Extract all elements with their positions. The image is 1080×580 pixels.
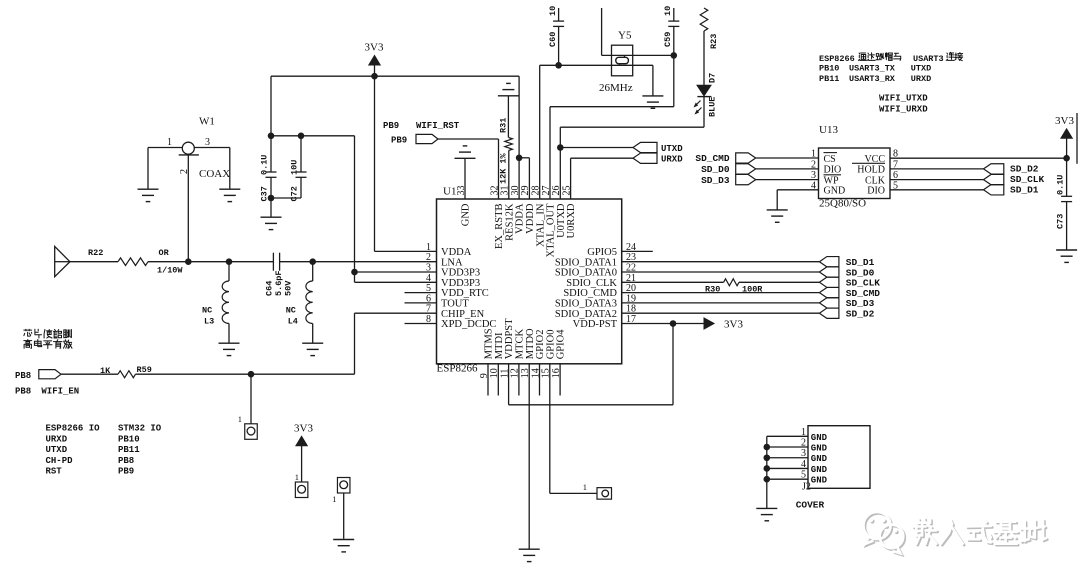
svg-text:ESP8266: ESP8266 — [437, 363, 478, 375]
svg-text:1: 1 — [332, 494, 336, 504]
svg-text:3: 3 — [801, 448, 806, 459]
svg-text:OR: OR — [159, 248, 170, 258]
svg-text:PB10: PB10 — [118, 434, 140, 444]
svg-text:GPIO4: GPIO4 — [556, 329, 567, 360]
svg-text:USART3: USART3 — [913, 54, 944, 64]
svg-text:1: 1 — [167, 137, 172, 148]
svg-text:UTXD: UTXD — [911, 64, 931, 74]
svg-text:VDD-PST: VDD-PST — [573, 319, 618, 330]
svg-text:R22: R22 — [88, 248, 103, 258]
svg-text:10U: 10U — [290, 160, 300, 175]
svg-text:WIFI_URXD: WIFI_URXD — [879, 105, 928, 115]
svg-text:5: 5 — [801, 470, 806, 481]
svg-text:DIO: DIO — [824, 165, 842, 176]
svg-text:Y5: Y5 — [618, 30, 632, 42]
svg-text:HOLD: HOLD — [857, 165, 885, 176]
svg-text:PB8: PB8 — [15, 387, 31, 397]
svg-text:2: 2 — [801, 438, 806, 449]
svg-text:COAX: COAX — [199, 168, 230, 180]
svg-text:3V3: 3V3 — [294, 423, 313, 435]
svg-text:3V3: 3V3 — [365, 42, 384, 54]
svg-text:R23: R23 — [709, 34, 719, 49]
svg-text:12K 1%: 12K 1% — [499, 152, 509, 184]
svg-text:GND: GND — [824, 186, 846, 197]
svg-text:1: 1 — [295, 472, 299, 482]
svg-text:L3: L3 — [204, 317, 214, 327]
svg-text:100R: 100R — [742, 285, 763, 295]
svg-text:J2: J2 — [802, 482, 811, 493]
svg-text:SD_D0: SD_D0 — [701, 164, 730, 175]
svg-text:3: 3 — [205, 137, 210, 148]
svg-text:SD_CMD: SD_CMD — [695, 153, 730, 164]
svg-text:1: 1 — [583, 482, 587, 492]
svg-text:PB11: PB11 — [118, 445, 140, 455]
svg-text:1/10W: 1/10W — [157, 266, 183, 276]
svg-text:DIO: DIO — [867, 186, 885, 197]
svg-text:URXD: URXD — [911, 74, 931, 84]
svg-text:SD_D3: SD_D3 — [701, 175, 730, 186]
svg-text:GND: GND — [811, 454, 828, 464]
svg-text:PB8: PB8 — [15, 371, 31, 381]
svg-text:SD_D2: SD_D2 — [1010, 163, 1039, 174]
svg-text:1: 1 — [238, 414, 242, 424]
svg-text:C64: C64 — [265, 281, 275, 296]
svg-text:PB10: PB10 — [819, 64, 839, 74]
svg-text:UTXD: UTXD — [46, 445, 68, 455]
svg-text:GND: GND — [811, 476, 828, 486]
svg-text:WIFI_RST: WIFI_RST — [416, 121, 460, 131]
svg-text:USART3_TX: USART3_TX — [849, 64, 896, 74]
svg-text:4: 4 — [801, 459, 806, 470]
svg-text:URXD: URXD — [46, 434, 68, 444]
svg-text:ESP8266 IO: ESP8266 IO — [46, 424, 101, 434]
svg-text:PB8: PB8 — [118, 456, 134, 466]
svg-text:C73: C73 — [1055, 214, 1065, 229]
svg-text:NC: NC — [286, 306, 296, 316]
svg-text:URXD: URXD — [661, 155, 683, 165]
svg-text:PB9: PB9 — [118, 467, 134, 477]
svg-text:D7: D7 — [708, 73, 718, 83]
svg-text:BLUE: BLUE — [708, 97, 718, 117]
svg-text:1K: 1K — [100, 366, 111, 376]
svg-text:C37: C37 — [260, 186, 270, 201]
svg-text:C72: C72 — [290, 186, 300, 201]
svg-text:0.1U: 0.1U — [1055, 175, 1065, 195]
svg-text:26MHz: 26MHz — [599, 82, 633, 94]
svg-text:RST: RST — [46, 467, 63, 477]
svg-text:GND: GND — [811, 465, 828, 475]
svg-text:SD_D1: SD_D1 — [1010, 184, 1039, 195]
svg-text:3V3: 3V3 — [724, 319, 743, 331]
svg-text:PB9: PB9 — [383, 121, 399, 131]
svg-text:STM32 IO: STM32 IO — [118, 424, 162, 434]
svg-text:CS: CS — [824, 154, 836, 165]
svg-text:UTXD: UTXD — [661, 144, 683, 154]
svg-text:0.1U: 0.1U — [260, 155, 270, 175]
svg-text:ESP8266: ESP8266 — [819, 54, 855, 64]
svg-text:10: 10 — [548, 6, 558, 16]
svg-text:C60: C60 — [548, 32, 558, 47]
svg-text:50V: 50V — [284, 280, 294, 296]
svg-text:L4: L4 — [288, 317, 298, 327]
svg-text:CH-PD: CH-PD — [46, 456, 74, 466]
svg-text:3V3: 3V3 — [1055, 115, 1074, 127]
svg-text:C59: C59 — [663, 32, 673, 47]
svg-text:R31: R31 — [499, 118, 509, 133]
svg-text:10: 10 — [663, 6, 673, 16]
svg-text:COVER: COVER — [796, 500, 825, 511]
svg-text:5.6pF: 5.6pF — [274, 270, 284, 296]
svg-text:1: 1 — [801, 427, 806, 438]
svg-text:GND: GND — [811, 444, 828, 454]
svg-text:GND: GND — [461, 203, 472, 226]
svg-text:WIFI_EN: WIFI_EN — [41, 387, 79, 397]
svg-text:PB11: PB11 — [819, 74, 839, 84]
svg-text:GND: GND — [811, 433, 828, 443]
svg-text:NC: NC — [202, 306, 212, 316]
svg-text:U13: U13 — [819, 124, 838, 136]
svg-text:SD_D2: SD_D2 — [846, 309, 875, 320]
svg-text:WIFI_UTXD: WIFI_UTXD — [879, 94, 928, 104]
svg-text:R59: R59 — [137, 365, 152, 375]
svg-text:25Q80/SO: 25Q80/SO — [819, 198, 866, 210]
svg-text:PB9: PB9 — [391, 136, 407, 146]
svg-text:W1: W1 — [199, 116, 215, 128]
svg-text:R30: R30 — [705, 285, 720, 295]
svg-text:U0RXD: U0RXD — [566, 203, 577, 238]
svg-text:USART3_RX: USART3_RX — [849, 74, 896, 84]
svg-text:2: 2 — [179, 169, 190, 174]
svg-text:U1: U1 — [443, 186, 456, 198]
